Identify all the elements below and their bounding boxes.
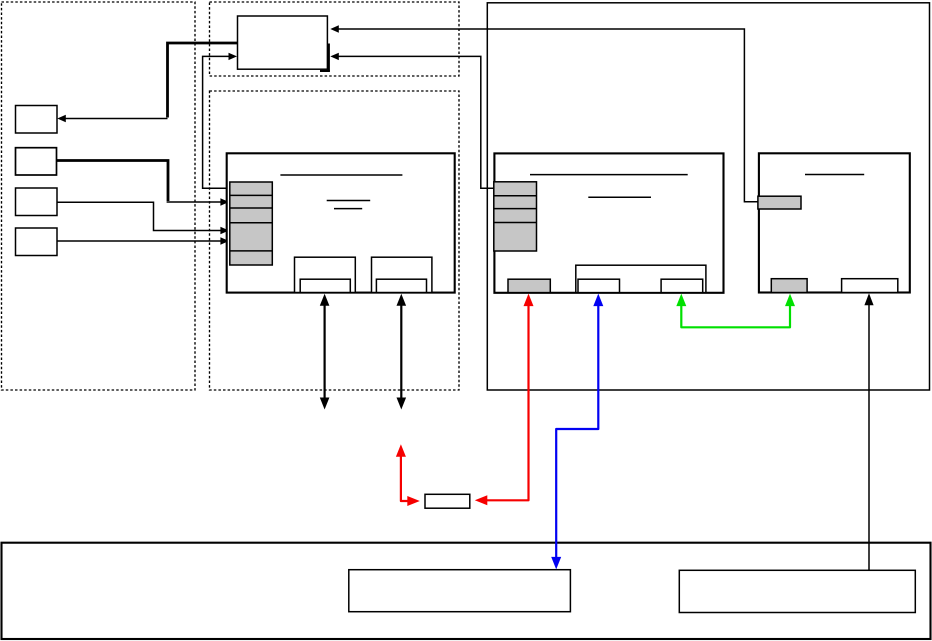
module M1 connector C2 inner — [376, 279, 426, 292]
black double arrow 2 under module M1 — [397, 294, 407, 410]
black double arrow 1 under module M1 — [320, 294, 330, 410]
arrow into module M1 port row2 — [167, 198, 229, 205]
module M3 title line — [805, 174, 864, 176]
red L arrow double-headed — [396, 444, 420, 506]
module M3 gray port — [758, 196, 801, 209]
module M2 title line — [530, 174, 688, 176]
module M2 white connector 2 — [661, 279, 703, 292]
wire from small box S4 to module M1 port row4 — [57, 237, 229, 244]
wire thick from small box S2 to elbow down — [57, 161, 169, 202]
module M2 connector group outer box — [576, 265, 706, 292]
green bracket wire between module M2 connector 2 and module M3 gray connector — [676, 294, 795, 328]
module M3 white connector — [842, 279, 898, 293]
small box S4 — [16, 228, 58, 256]
small box S1 — [16, 106, 58, 134]
module M1 title line — [280, 174, 402, 176]
wire from module M2 port row1 up into box U right edge — [330, 53, 494, 189]
module M1 connector C1 outer — [295, 257, 356, 292]
dotted group box middle — [210, 91, 460, 390]
red wire from module M2 gray connector to small box K — [475, 294, 534, 506]
dotted group box top-middle — [210, 2, 460, 76]
wire from small box S3 to module M1 port row4 — [57, 202, 229, 234]
dotted group box left — [2, 2, 196, 390]
band right box — [679, 570, 915, 612]
arrow into small box S1 — [57, 115, 167, 122]
module M1 connector C1 inner — [300, 279, 350, 292]
module M2 gray connector — [508, 279, 550, 292]
band left box — [349, 570, 571, 612]
small box K — [425, 494, 470, 508]
bottom band — [2, 543, 931, 639]
wire from module M1 port row1 up into box U left edge — [203, 53, 237, 189]
black wire from band right box up into module M3 white connector — [864, 293, 873, 570]
box U top-center — [238, 16, 328, 69]
module M1 inner line b — [334, 208, 362, 210]
small box S2 — [16, 148, 57, 175]
module M2 — [494, 153, 723, 292]
big solid group box right — [487, 3, 929, 390]
small box S3 — [16, 188, 58, 216]
module M1 connector C2 outer — [372, 257, 432, 292]
module M2 inner line — [588, 196, 651, 198]
module M1 port stack — [230, 182, 272, 265]
wire from module M3 port up into box U right edge — [330, 25, 758, 202]
module M1 — [227, 153, 455, 292]
module M3 gray connector — [771, 279, 807, 293]
box U shadow right — [328, 44, 330, 72]
module M2 port stack — [494, 182, 537, 251]
blue wire from module M2 white connector 1 down to band left box — [551, 294, 603, 570]
wire thick from box U left edge to elbow down — [168, 43, 238, 118]
module M3 — [759, 153, 910, 292]
module M2 white connector 1 — [578, 279, 620, 292]
box U shadow bottom — [320, 70, 330, 72]
module M1 inner line a — [327, 200, 371, 202]
